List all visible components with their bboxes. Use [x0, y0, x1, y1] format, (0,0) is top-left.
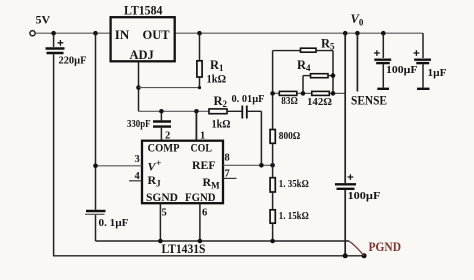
- svg-text:800Ω: 800Ω: [279, 131, 301, 142]
- svg-text:5: 5: [162, 208, 167, 219]
- svg-text:COMP: COMP: [148, 140, 180, 154]
- node junction 330pF tap: [159, 109, 164, 114]
- svg-text:3: 3: [135, 154, 140, 165]
- svg-text:1: 1: [200, 131, 205, 142]
- svg-text:142Ω: 142Ω: [307, 97, 332, 108]
- resistor R1 1k body: [197, 33, 202, 87]
- wire pin5 down: [159, 203, 161, 241]
- node junction R1 top: [197, 31, 202, 36]
- svg-text:SENSE: SENSE: [351, 92, 387, 107]
- node junction R4 right: [331, 73, 336, 78]
- svg-text:5V: 5V: [36, 12, 51, 26]
- svg-text:ADJ: ADJ: [130, 48, 154, 62]
- node junction PGND right on outer rail: [362, 253, 367, 258]
- resistor 1.15k body: [270, 210, 275, 241]
- svg-text:FGND: FGND: [185, 190, 216, 204]
- wire COL pin1 up: [195, 111, 197, 140]
- svg-text:83Ω: 83Ω: [281, 96, 298, 107]
- svg-text:1µF: 1µF: [428, 67, 447, 79]
- resistor R5 body horizontal: [273, 48, 333, 93]
- svg-text:1kΩ: 1kΩ: [207, 74, 227, 86]
- svg-text:LT1431S: LT1431S: [162, 242, 206, 256]
- node junction sense line: [355, 31, 360, 36]
- wire SENSE stub down: [356, 33, 358, 91]
- node junction row left: [270, 91, 275, 96]
- node junction 220uF tap: [51, 31, 56, 36]
- op-amp U1 LT1584 regulator box: [111, 17, 175, 61]
- resistor R4 body horizontal: [303, 74, 333, 94]
- node junction PGND left on outer rail: [343, 253, 348, 258]
- wire outer ground rail bottom: [53, 255, 364, 257]
- svg-text:330pF: 330pF: [127, 118, 151, 130]
- wire top rail left (5V to LT1584 IN): [35, 32, 110, 34]
- wire pin3 V+ to left rail: [96, 165, 143, 167]
- node junction V0 force: [343, 31, 348, 36]
- node junction pin5: [158, 239, 163, 244]
- svg-text:220µF: 220µF: [59, 55, 87, 67]
- svg-text:2: 2: [165, 131, 170, 142]
- svg-text:6: 6: [202, 208, 207, 219]
- svg-text:0. 1µF: 0. 1µF: [99, 217, 129, 229]
- svg-text:PGND: PGND: [369, 240, 402, 254]
- node junction chain bottom: [270, 239, 275, 244]
- wire ADJ pin down: [138, 61, 140, 111]
- svg-text:1kΩ: 1kΩ: [212, 119, 231, 131]
- node junction 142 right: [331, 91, 336, 96]
- svg-text:COL: COL: [191, 140, 213, 154]
- resistor chain wire x=272.6 top from R5 corner: [272, 51, 274, 130]
- wire left rail down to 0.1uF: [95, 33, 97, 210]
- svg-text:1. 35kΩ: 1. 35kΩ: [279, 179, 309, 190]
- capacitor C 0.1uF: [85, 211, 106, 241]
- node junction V+ rail tap: [93, 31, 98, 36]
- capacitor C 0.01uF series: [242, 106, 261, 166]
- node junction REF to chain: [270, 163, 275, 168]
- capacitor C 1uF top right: [414, 33, 432, 89]
- wire PGND diagonal tap: [349, 241, 364, 256]
- capacitor C 330pF in series to COMP pin2: [153, 111, 171, 140]
- resistor 800 Ohm body: [270, 130, 275, 178]
- node junction 100uF top tap: [381, 31, 386, 36]
- svg-text:IN: IN: [115, 27, 130, 42]
- svg-text:LT1584: LT1584: [124, 3, 163, 17]
- node 5V input terminal: [30, 31, 35, 36]
- svg-text:OUT: OUT: [143, 28, 171, 42]
- svg-text:100µF: 100µF: [386, 65, 418, 76]
- svg-text:100µF: 100µF: [348, 191, 381, 202]
- resistor R2 1k body horizontal: [209, 109, 242, 114]
- wire ADJ to R1 bottom: [139, 87, 200, 89]
- wire COMP-COL node horizontal: [139, 110, 210, 112]
- op-amp U2 LT1431S box: [142, 141, 223, 204]
- node junction 0.01uF branch on REF: [259, 163, 264, 168]
- svg-text:SGND: SGND: [146, 190, 178, 204]
- svg-text:0. 01µF: 0. 01µF: [232, 94, 265, 105]
- svg-text:1. 15kΩ: 1. 15kΩ: [279, 211, 309, 222]
- node junction COL tap: [194, 109, 199, 114]
- node junction pin6: [198, 239, 203, 244]
- capacitor C 100uF top right: [374, 33, 391, 89]
- svg-text:8: 8: [225, 153, 230, 164]
- capacitor C 220uF: [46, 33, 65, 256]
- wire V0 force line down: [344, 33, 346, 183]
- wire pin4 stub: [129, 180, 142, 182]
- node junction ADJ: [136, 85, 141, 90]
- svg-text:REF: REF: [192, 158, 216, 172]
- node junction R1 bottom: [198, 86, 201, 89]
- resistor 1.35k body: [270, 178, 275, 210]
- wire pin7 stub: [223, 177, 237, 179]
- wire inner ground rail: [96, 240, 350, 242]
- resistor 83 Ohm body: [279, 91, 297, 95]
- wire top rail right (LT1584 OUT to output): [175, 32, 423, 34]
- resistor 142 Ohm body: [312, 91, 330, 95]
- wire pin6 down: [199, 203, 201, 241]
- wire sense row: [273, 92, 346, 94]
- node junction pin3 tap: [93, 164, 98, 169]
- node junction R4 bottom row: [301, 91, 306, 96]
- wire pin8 REF to divider: [223, 164, 273, 166]
- capacitor C 100uF output bottom: [335, 174, 356, 256]
